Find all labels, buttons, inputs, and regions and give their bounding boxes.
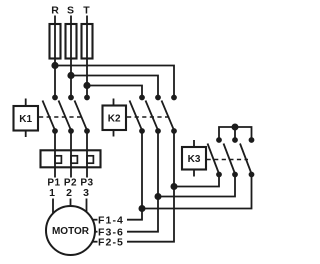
svg-text:K1: K1 <box>19 114 32 125</box>
wire branch R to K2 contact 3 <box>55 66 174 97</box>
wire K1-2 to overload <box>70 131 72 151</box>
svg-text:MOTOR: MOTOR <box>52 226 90 237</box>
wire branch T to K2 contact 1 <box>87 86 142 97</box>
wire overload P1 to label <box>54 167 56 177</box>
svg-text:3: 3 <box>83 187 89 199</box>
wire K2-1 down to F1-4 line <box>127 131 142 220</box>
wire star-point bus middle drop <box>234 127 236 140</box>
wire K2-3 down to F2-5 line <box>127 131 174 242</box>
contactor coil K1 <box>14 99 39 138</box>
node junction K2-2/K3-2 <box>155 194 160 199</box>
wire phase S vertical (supply to K1 contact) <box>70 16 72 97</box>
fuse R <box>50 24 61 59</box>
wire K3-2 to junction <box>158 175 235 197</box>
contact K3-3 <box>240 138 254 177</box>
wire branch S to K2 contact 2 <box>71 76 158 97</box>
contact K1-2 <box>59 96 74 134</box>
wire motor to F3-6 label <box>95 231 98 233</box>
node junction K2-3/K3-1 <box>171 184 176 189</box>
overload heater P3 <box>87 150 93 167</box>
svg-text:R: R <box>51 5 59 17</box>
contact K1-1 <box>43 96 58 134</box>
contact K3-2 <box>224 138 238 177</box>
wire phase T vertical (supply to K1 contact) <box>86 16 88 97</box>
svg-text:2: 2 <box>66 187 72 199</box>
motor M <box>46 206 95 255</box>
linkage K3 (dashed) <box>207 159 249 161</box>
contact K2-1 <box>130 96 145 134</box>
wire motor to F1-4 label <box>93 219 98 221</box>
contact K1-3 <box>75 96 90 134</box>
linkage K2 (dashed) <box>127 116 170 118</box>
fuse S <box>66 24 77 59</box>
wire phase R vertical (supply to K1 contact) <box>54 16 56 97</box>
wire overload P3 to label <box>86 167 88 177</box>
wire motor to F2-5 label <box>93 241 98 243</box>
svg-text:1: 1 <box>49 187 55 199</box>
svg-text:T: T <box>83 5 90 17</box>
svg-text:F2-5: F2-5 <box>98 236 124 248</box>
node S tap <box>68 73 73 78</box>
overload relay body <box>41 150 101 167</box>
wire terminal 1 to motor <box>52 199 54 214</box>
overload heater P2 <box>71 150 77 167</box>
overload heater P1 <box>55 150 61 167</box>
node T tap <box>84 83 89 88</box>
contact K3-1 <box>208 138 222 177</box>
wire K2-2 down to F3-6 line <box>127 131 158 232</box>
wire terminal 3 to motor <box>86 199 88 213</box>
wire K3-1 to junction <box>174 175 219 187</box>
linkage K1 (dashed) <box>39 116 84 118</box>
svg-text:K2: K2 <box>108 114 121 125</box>
svg-text:S: S <box>67 5 74 17</box>
contact K2-2 <box>146 96 161 134</box>
contact K2-3 <box>162 96 177 134</box>
wire terminal 2 to motor <box>70 199 72 207</box>
wire star-point bus of K3 <box>219 127 252 140</box>
svg-text:F1-4: F1-4 <box>98 214 124 226</box>
contactor coil K2 <box>103 99 127 137</box>
node junction K2-1/K3-3 <box>139 206 144 211</box>
fuse T <box>82 24 93 59</box>
contactor coil K3 <box>182 140 206 177</box>
node R tap <box>52 63 57 68</box>
wire overload P2 to label <box>70 167 72 177</box>
wire K3-3 to junction <box>142 175 252 209</box>
wire K1-3 to overload <box>86 131 88 151</box>
svg-text:K3: K3 <box>188 154 201 165</box>
node star bus junction <box>232 124 237 129</box>
wire K1-1 to overload <box>54 131 56 151</box>
